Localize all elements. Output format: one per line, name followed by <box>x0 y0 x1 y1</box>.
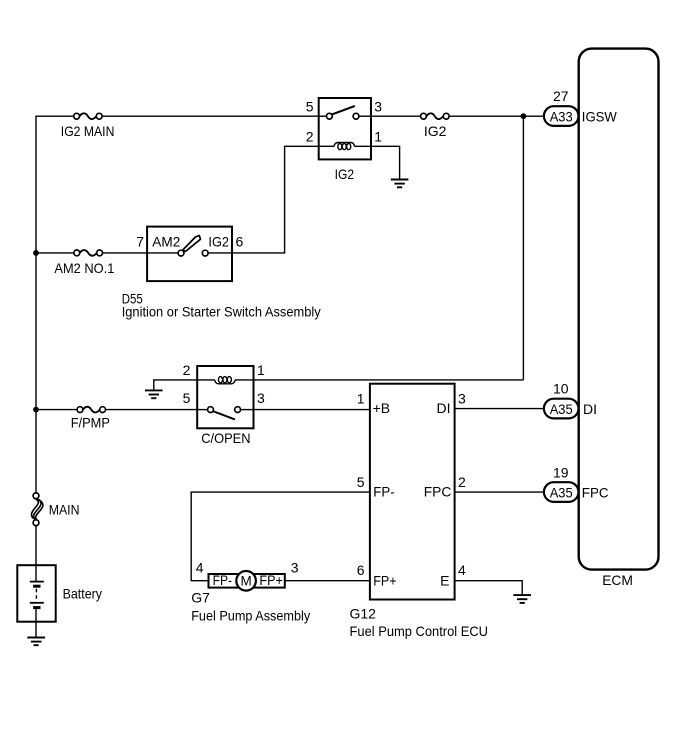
svg-text:2: 2 <box>306 128 314 144</box>
relay C/OPEN box <box>197 366 253 428</box>
battery plate short top <box>33 585 40 588</box>
svg-text:G7: G7 <box>191 590 210 606</box>
battery plate long top <box>30 581 44 583</box>
fuse F/PMP <box>77 407 105 413</box>
svg-text:2: 2 <box>458 474 466 490</box>
svg-text:ECM: ECM <box>602 572 633 588</box>
svg-text:4: 4 <box>196 560 204 576</box>
svg-text:+B: +B <box>373 400 391 416</box>
wire AM2 NO.1 row right segment to D55 <box>103 252 147 254</box>
svg-text:5: 5 <box>183 390 191 406</box>
fuel pump assembly G7 box <box>209 571 285 591</box>
connector A33 pin 27 <box>544 106 579 126</box>
wire node vertical from IGSW junction down to C/OPEN pin1 <box>522 116 524 380</box>
svg-text:DI: DI <box>437 400 451 416</box>
connector A35 pin 10 <box>544 399 579 419</box>
svg-text:IG2: IG2 <box>208 234 229 250</box>
switch lever D55 key <box>183 236 201 252</box>
wire IG2 box pin5 stub <box>319 115 327 117</box>
wire C/OPEN pin2 to ground <box>154 380 197 390</box>
wire C/OPEN pin1 to vertical <box>254 379 524 381</box>
svg-text:3: 3 <box>257 390 265 406</box>
switch D55 box <box>147 227 232 282</box>
fuse IG2 <box>421 113 450 119</box>
svg-text:Fuel Pump Assembly: Fuel Pump Assembly <box>191 607 310 623</box>
switch lever IG2 relay <box>332 106 355 114</box>
coil C/OPEN relay <box>215 377 236 384</box>
svg-text:F/PMP: F/PMP <box>71 414 110 430</box>
battery plate long bottom <box>30 602 44 604</box>
svg-text:MAIN: MAIN <box>49 502 80 518</box>
svg-text:3: 3 <box>374 99 382 115</box>
wire D55 pin6 up to IG2 relay pin2 <box>232 146 319 253</box>
wire D55 internal pin7 to contact <box>147 252 178 254</box>
ground G12 E <box>513 595 531 603</box>
svg-text:Fuel Pump Control ECU: Fuel Pump Control ECU <box>350 623 489 639</box>
svg-text:A35: A35 <box>550 484 573 500</box>
wire battery to ground <box>35 622 37 637</box>
svg-text:6: 6 <box>357 562 365 578</box>
svg-text:E: E <box>440 572 449 588</box>
wire G7 pin3 to G12 FP+ <box>285 580 370 582</box>
svg-text:3: 3 <box>458 391 466 407</box>
wire F/PMP row right segment to C/OPEN <box>105 409 197 411</box>
wire G12 DI to A35 <box>455 408 544 410</box>
wire IG2 box coil row right <box>354 145 371 147</box>
wire MAIN link to battery <box>35 526 37 566</box>
svg-text:FPC: FPC <box>424 484 452 500</box>
switch contact AM2 <box>178 250 184 256</box>
svg-text:C/OPEN: C/OPEN <box>201 430 250 446</box>
ground battery <box>27 638 45 646</box>
svg-text:A33: A33 <box>550 108 573 124</box>
connector A35 pin 19 <box>544 482 579 502</box>
wire D55 contact to pin6 <box>208 252 232 254</box>
svg-text:1: 1 <box>357 391 365 407</box>
ground C/OPEN pin2 <box>145 390 163 398</box>
wire IG2 box coil row left <box>319 145 334 147</box>
wire left vertical bus from IG2 MAIN corner down to MAIN link <box>36 116 74 493</box>
svg-text:FP-: FP- <box>373 484 395 500</box>
wire G12 E to ground <box>455 581 523 595</box>
svg-text:19: 19 <box>553 465 569 481</box>
battery plate short bottom <box>33 606 40 609</box>
svg-text:IG2: IG2 <box>335 166 355 182</box>
coil IG2 relay <box>334 143 355 150</box>
svg-text:AM2 NO.1: AM2 NO.1 <box>54 260 114 276</box>
motor M circle <box>236 571 256 591</box>
svg-text:6: 6 <box>236 234 244 250</box>
svg-text:5: 5 <box>357 474 365 490</box>
wire C/OPEN coil row right stub <box>235 379 254 381</box>
svg-text:27: 27 <box>553 88 569 104</box>
svg-text:FPC: FPC <box>582 484 609 500</box>
svg-text:Battery: Battery <box>63 586 102 602</box>
battery dashed link <box>35 589 37 601</box>
svg-text:1: 1 <box>257 362 265 378</box>
svg-text:IGSW: IGSW <box>582 108 618 124</box>
wire IG2 relay pin1 to ground <box>371 146 400 178</box>
wire C/OPEN pin5 stub <box>197 409 207 411</box>
svg-text:FP-: FP- <box>213 572 233 588</box>
wire C/OPEN contact to pin3 <box>241 409 254 411</box>
junction dot AM2 row <box>33 250 39 256</box>
ECM box <box>579 49 659 570</box>
svg-text:IG2: IG2 <box>424 123 447 139</box>
switch contact pin3 <box>353 113 359 119</box>
relay IG2 box <box>319 98 371 159</box>
svg-text:1: 1 <box>374 128 382 144</box>
svg-text:4: 4 <box>458 562 466 578</box>
svg-text:7: 7 <box>136 234 144 250</box>
junction dot F/PMP row <box>33 407 39 413</box>
svg-text:Ignition or Starter Switch Ass: Ignition or Starter Switch Assembly <box>122 304 321 320</box>
svg-text:FP+: FP+ <box>259 572 282 588</box>
switch contact pin5 <box>208 407 214 413</box>
switch contact pin5 <box>327 113 333 119</box>
fuse IG2 MAIN <box>74 113 102 119</box>
svg-text:DI: DI <box>583 401 597 417</box>
svg-text:10: 10 <box>553 381 569 397</box>
svg-text:2: 2 <box>183 362 191 378</box>
svg-text:FP+: FP+ <box>373 572 396 588</box>
battery <box>17 565 55 622</box>
svg-text:A35: A35 <box>550 401 573 417</box>
wire G12 FP- down to G7 pin4 <box>191 492 370 581</box>
wire IG2 MAIN row right segment to IG2 switch <box>102 115 319 117</box>
ground IG2 relay pin1 <box>391 180 409 188</box>
switch contact IG2 <box>202 250 208 256</box>
svg-text:M: M <box>240 573 251 588</box>
svg-text:AM2: AM2 <box>152 234 180 250</box>
wire pin3 to IG2 fuse <box>371 115 421 117</box>
svg-text:G12: G12 <box>350 605 377 621</box>
wire C/OPEN pin3 to G12 +B <box>254 409 370 411</box>
fuse AM2 NO.1 <box>74 250 103 256</box>
wire C/OPEN coil row left stub <box>197 379 215 381</box>
fusible link MAIN <box>32 493 43 526</box>
svg-text:3: 3 <box>291 560 299 576</box>
wire G12 FPC to A35 <box>455 491 544 493</box>
wire IG2 fuse to A33 <box>449 115 544 117</box>
switch lever C/OPEN <box>213 411 235 419</box>
fuel pump control ECU G12 box <box>370 384 455 600</box>
junction dot IGSW node <box>521 113 527 119</box>
wire F/PMP row left segment <box>36 409 77 411</box>
wire AM2 NO.1 row left segment <box>36 252 74 254</box>
switch contact pin3 <box>235 407 241 413</box>
svg-text:IG2 MAIN: IG2 MAIN <box>61 123 115 139</box>
svg-text:5: 5 <box>306 99 314 115</box>
wire IG2 box contact to pin3 <box>359 115 371 117</box>
